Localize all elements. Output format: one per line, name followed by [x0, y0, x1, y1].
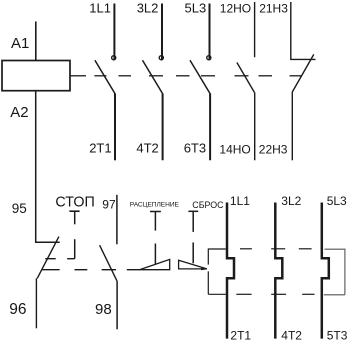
svg-text:2T1: 2T1: [89, 140, 111, 155]
svg-text:12НО: 12НО: [220, 2, 251, 16]
main contact pole 5L3-6T3: [190, 4, 211, 161]
svg-text:22Н3: 22Н3: [259, 143, 288, 157]
aux NO contact 12НО-14НО: [237, 2, 255, 160]
svg-text:21Н3: 21Н3: [259, 2, 288, 16]
svg-text:1L1: 1L1: [89, 1, 111, 16]
svg-text:95: 95: [12, 201, 27, 216]
overload block frame left bracket: [208, 249, 226, 295]
svg-text:A1: A1: [11, 35, 29, 52]
svg-text:98: 98: [95, 301, 112, 318]
trip wedge (РАСЦЕПЛЕНИЕ): [140, 259, 170, 269]
NO contact 97-98: [100, 195, 118, 329]
trip РАСЦЕПЛЕНИЕ actuator: [150, 212, 161, 265]
aux NC contact 21Н3-22Н3: [290, 2, 315, 160]
thermal element pole 1L1-2T1: [227, 203, 234, 339]
wire coil A2 down to contact 95: [35, 91, 37, 243]
svg-text:5L3: 5L3: [185, 1, 207, 16]
svg-text:5T3: 5T3: [327, 328, 348, 342]
svg-text:1L1: 1L1: [230, 194, 250, 208]
coil KM1: [2, 61, 70, 91]
svg-text:СБРОС: СБРОС: [192, 200, 224, 210]
svg-text:СТОП: СТОП: [55, 195, 94, 211]
button СТОП actuator: [45, 211, 79, 259]
svg-text:4T2: 4T2: [136, 140, 158, 155]
svg-text:A2: A2: [10, 104, 28, 121]
wire mechanical link (dashed) from coil to contacts: [70, 75, 301, 77]
wire A1 terminal: [35, 22, 37, 61]
svg-text:97: 97: [102, 197, 116, 211]
overload block frame right bracket: [324, 249, 345, 295]
reset СБРОС actuator: [188, 211, 198, 263]
svg-text:96: 96: [9, 301, 26, 318]
main contact pole 1L1-2T1: [95, 4, 116, 161]
svg-text:3L2: 3L2: [137, 1, 159, 16]
svg-text:6T3: 6T3: [184, 140, 206, 155]
svg-text:5L3: 5L3: [327, 194, 347, 208]
thermal element pole 3L2-4T2: [275, 203, 282, 339]
wire trip linkage (dashed horizontal): [42, 269, 140, 271]
svg-text:3L2: 3L2: [281, 194, 301, 208]
reset wedge (СБРОС) with arrow tip: [179, 260, 208, 270]
thermal element pole 5L3-5T3: [322, 203, 329, 339]
svg-text:14НО: 14НО: [219, 143, 250, 157]
svg-text:РАСЦЕПЛЕНИЕ: РАСЦЕПЛЕНИЕ: [130, 201, 180, 208]
main contact pole 3L2-4T2: [143, 4, 164, 161]
svg-text:2T1: 2T1: [230, 328, 251, 342]
svg-text:4T2: 4T2: [281, 328, 302, 342]
NC contact 95-96: [35, 237, 60, 329]
overload block frame dashed links: [236, 249, 314, 294]
